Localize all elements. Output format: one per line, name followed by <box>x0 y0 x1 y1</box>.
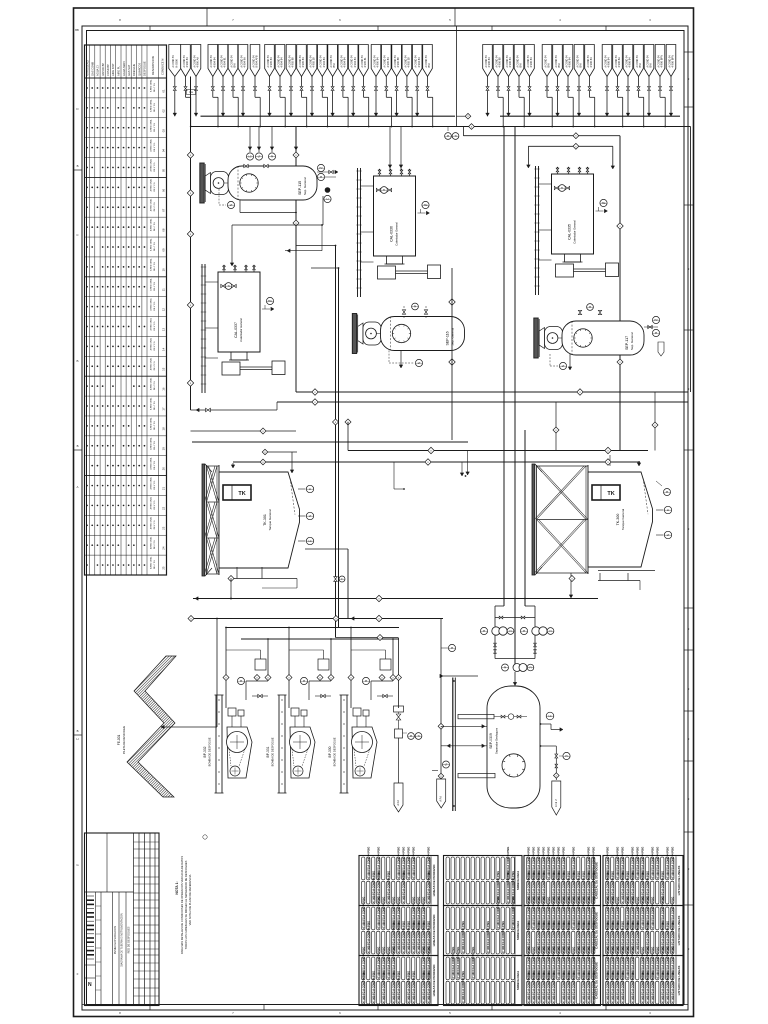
svg-text:DE 4" FG: DE 4" FG <box>154 401 156 410</box>
svg-text:LINEAS DE PROCESO: LINEAS DE PROCESO <box>432 864 436 897</box>
svg-text:A COND 84: A COND 84 <box>636 55 639 68</box>
svg-text:A RED GRAL: A RED GRAL <box>149 317 152 330</box>
svg-text:4" 900 FG A COND 84 PSIG: 4" 900 FG A COND 84 PSIG <box>532 971 535 1003</box>
svg-text:A COND 84: A COND 84 <box>646 55 649 68</box>
svg-text:A COND 84: A COND 84 <box>309 55 312 68</box>
svg-text:GAS COMB: GAS COMB <box>90 62 94 76</box>
svg-text:DE 4" FG: DE 4" FG <box>154 142 156 151</box>
svg-text:LG: LG <box>308 540 311 543</box>
svg-text:4" 900 FG A COND 84 PSIG: 4" 900 FG A COND 84 PSIG <box>397 921 400 953</box>
svg-text:A COND 84: A COND 84 <box>544 55 547 68</box>
svg-text:4" 900 FG A COND 84 PSIG: 4" 900 FG A COND 84 PSIG <box>651 897 654 929</box>
svg-text:DESCRIPCION: DESCRIPCION <box>151 56 155 75</box>
svg-text:Cw: Cw <box>189 90 193 94</box>
svg-text:23: 23 <box>162 526 166 530</box>
svg-text:A RED GRAL: A RED GRAL <box>149 118 152 131</box>
svg-text:LG: LG <box>248 155 251 158</box>
svg-text:24: 24 <box>162 546 166 550</box>
svg-text:17: 17 <box>162 407 166 411</box>
svg-text:A COND 84: A COND 84 <box>587 55 590 68</box>
svg-text:BB: BB <box>75 28 79 32</box>
svg-text:02: 02 <box>162 109 166 113</box>
svg-text:4" 900 FG A COND 84 PSIG: 4" 900 FG A COND 84 PSIG <box>462 971 465 1003</box>
svg-text:COND BP: COND BP <box>106 64 110 76</box>
svg-text:4" 900 FG A COND 84 PSIG: 4" 900 FG A COND 84 PSIG <box>666 971 669 1003</box>
svg-text:LINEAS DE PROCESO: LINEAS DE PROCESO <box>432 914 436 947</box>
svg-text:4" 900 FG A COND 84 PSIG: 4" 900 FG A COND 84 PSIG <box>427 971 430 1003</box>
svg-text:4" 900 FG A COND 84 PSIG: 4" 900 FG A COND 84 PSIG <box>656 847 659 879</box>
svg-text:PI: PI <box>504 666 507 669</box>
svg-text:4" 900 FG A COND 84 PSIG: 4" 900 FG A COND 84 PSIG <box>651 847 654 879</box>
svg-text:A COND 84: A COND 84 <box>415 55 418 68</box>
svg-text:A: A <box>76 485 78 489</box>
svg-text:4" 900 FG A COND 84 PSIG: 4" 900 FG A COND 84 PSIG <box>666 847 669 879</box>
svg-text:BP-331: BP-331 <box>266 746 270 757</box>
svg-text:A COND 84: A COND 84 <box>351 55 354 68</box>
svg-text:Calentador General: Calentador General <box>395 222 399 246</box>
svg-text:TI: TI <box>227 285 229 288</box>
svg-text:TK-301: TK-301 <box>263 514 267 526</box>
svg-text:A RED GRAL: A RED GRAL <box>149 377 152 390</box>
svg-text:FI: FI <box>549 630 551 633</box>
svg-text:LI: LI <box>327 198 329 201</box>
svg-text:4" 900 FG A COND 84 PSIG: 4" 900 FG A COND 84 PSIG <box>552 971 555 1003</box>
svg-text:N: N <box>88 982 92 988</box>
svg-text:DE 4" FG: DE 4" FG <box>154 361 156 370</box>
svg-text:PI: PI <box>410 735 413 738</box>
svg-text:AGUA SERV: AGUA SERV <box>122 61 126 76</box>
svg-text:DE 4" FG: DE 4" FG <box>154 83 156 92</box>
svg-text:NOTA 1:: NOTA 1: <box>175 881 179 894</box>
svg-text:20: 20 <box>162 467 166 471</box>
svg-text:PV: PV <box>319 167 323 170</box>
svg-text:13: 13 <box>162 328 166 332</box>
svg-text:4" 900 FG A COND 84 PSIG: 4" 900 FG A COND 84 PSIG <box>547 971 550 1003</box>
svg-text:A COND 84: A COND 84 <box>555 55 558 68</box>
svg-text:4" 900 FG A COND 84 PSIG: 4" 900 FG A COND 84 PSIG <box>641 897 644 929</box>
svg-text:A RED GRAL: A RED GRAL <box>149 198 152 211</box>
svg-text:DE 4" FG: DE 4" FG <box>154 262 156 271</box>
svg-text:4" 900 FG A COND 84 PSIG: 4" 900 FG A COND 84 PSIG <box>472 947 475 979</box>
svg-text:A COND 84: A COND 84 <box>668 55 671 68</box>
svg-text:11: 11 <box>162 288 166 291</box>
svg-text:03: 03 <box>162 129 166 133</box>
svg-text:BP-332: BP-332 <box>203 746 207 757</box>
svg-text:4" 900 FG A COND 84 PSIG: 4" 900 FG A COND 84 PSIG <box>417 921 420 953</box>
svg-text:A RED GRAL: A RED GRAL <box>149 138 152 151</box>
svg-text:B: B <box>76 359 78 363</box>
svg-text:21: 21 <box>162 487 166 491</box>
svg-text:4" 900 FG A COND 84 PSIG: 4" 900 FG A COND 84 PSIG <box>537 971 540 1003</box>
svg-text:A RED GRAL: A RED GRAL <box>149 357 152 370</box>
svg-text:4" 900 FG A COND 84 PSIG: 4" 900 FG A COND 84 PSIG <box>631 971 634 1003</box>
svg-text:4" 900 FG A COND 84 PSIG: 4" 900 FG A COND 84 PSIG <box>402 921 405 953</box>
svg-text:4" 900 FG A COND 84 PSIG: 4" 900 FG A COND 84 PSIG <box>412 921 415 953</box>
svg-text:A RED GRAL: A RED GRAL <box>149 516 152 529</box>
svg-text:PI: PI <box>451 647 454 650</box>
svg-text:18: 18 <box>162 427 166 431</box>
svg-text:A COND 84: A COND 84 <box>320 55 323 68</box>
svg-text:TIC: TIC <box>424 204 428 207</box>
svg-text:4" 900 FG A COND 84 PSIG: 4" 900 FG A COND 84 PSIG <box>661 971 664 1003</box>
svg-text:4" 900 FG A COND 84 PSIG: 4" 900 FG A COND 84 PSIG <box>502 921 505 953</box>
svg-text:4" 900 FG A COND 84 PSIG: 4" 900 FG A COND 84 PSIG <box>547 847 550 879</box>
svg-text:DE 4" FG: DE 4" FG <box>154 103 156 112</box>
svg-text:A RED GRAL: A RED GRAL <box>149 436 152 449</box>
svg-text:H: H <box>76 737 78 741</box>
svg-text:4" 900 FG A COND 84 PSIG: 4" 900 FG A COND 84 PSIG <box>387 871 390 903</box>
svg-text:4" 900 FG A COND 84 PSIG: 4" 900 FG A COND 84 PSIG <box>382 971 385 1003</box>
svg-text:A COND 84: A COND 84 <box>485 55 488 68</box>
svg-text:A COND 84: A COND 84 <box>404 55 407 68</box>
svg-text:DE 4" FG: DE 4" FG <box>154 162 156 171</box>
svg-text:4" 900 FG A COND 84 PSIG: 4" 900 FG A COND 84 PSIG <box>641 971 644 1003</box>
svg-text:Calentador General: Calentador General <box>239 318 243 342</box>
svg-text:A COND 84: A COND 84 <box>220 55 223 68</box>
svg-text:PI: PI <box>589 306 592 309</box>
svg-text:A RED GRAL: A RED GRAL <box>149 158 152 171</box>
svg-text:TI: TI <box>383 189 385 192</box>
svg-text:4" 900 FG A COND 84 PSIG: 4" 900 FG A COND 84 PSIG <box>412 847 415 879</box>
svg-text:A COND 84: A COND 84 <box>495 55 498 68</box>
svg-text:Tanque General: Tanque General <box>621 508 625 530</box>
svg-text:PI: PI <box>565 755 568 758</box>
svg-text:4" 900 FG A COND 84 PSIG: 4" 900 FG A COND 84 PSIG <box>611 971 614 1003</box>
svg-text:4" 900 FG A COND 84 PSIG: 4" 900 FG A COND 84 PSIG <box>377 947 380 979</box>
svg-text:4" 900 FG A COND 84 PSIG: 4" 900 FG A COND 84 PSIG <box>572 897 575 929</box>
svg-text:DE 4" FG: DE 4" FG <box>154 540 156 549</box>
svg-text:A COND 84: A COND 84 <box>240 55 243 68</box>
svg-text:4" 900 FG A COND 84 PSIG: 4" 900 FG A COND 84 PSIG <box>532 897 535 929</box>
svg-text:08: 08 <box>162 228 166 232</box>
svg-text:A Fd Lf: A Fd Lf <box>555 799 558 807</box>
svg-text:25: 25 <box>162 566 166 570</box>
svg-text:Sep. General: Sep. General <box>303 177 307 195</box>
svg-text:DE 4" FG: DE 4" FG <box>154 560 156 569</box>
svg-text:DE 4" FG: DE 4" FG <box>154 182 156 191</box>
svg-text:A RED GRAL: A RED GRAL <box>149 218 152 231</box>
svg-text:A COND 84: A COND 84 <box>330 55 333 68</box>
svg-text:LISTADO DE LINEAS: LISTADO DE LINEAS <box>677 866 681 896</box>
svg-text:4" 900 FG A COND 84 PSIG: 4" 900 FG A COND 84 PSIG <box>397 971 400 1003</box>
svg-text:A COND 84: A COND 84 <box>252 55 255 68</box>
svg-text:TI: TI <box>454 135 456 138</box>
svg-text:DE 4" FG: DE 4" FG <box>154 122 156 131</box>
svg-text:A Fd: A Fd <box>439 796 443 802</box>
svg-text:4" 900 FG A COND 84 PSIG: 4" 900 FG A COND 84 PSIG <box>407 847 410 879</box>
svg-text:DE 4" FG: DE 4" FG <box>154 480 156 489</box>
svg-text:BOMBA DE DESFOGUE: BOMBA DE DESFOGUE <box>208 737 212 766</box>
svg-text:4" 900 FG A COND 84 PSIG: 4" 900 FG A COND 84 PSIG <box>582 971 585 1003</box>
svg-text:B: B <box>77 729 79 733</box>
svg-text:CABEZAL DE DESFOGUE: CABEZAL DE DESFOGUE <box>595 862 599 899</box>
svg-text:A COND 84: A COND 84 <box>277 55 280 68</box>
svg-text:4" 900 FG A COND 84 PSIG: 4" 900 FG A COND 84 PSIG <box>562 971 565 1003</box>
svg-text:PI: PI <box>303 680 306 683</box>
svg-text:4" 900 FG A COND 84 PSIG: 4" 900 FG A COND 84 PSIG <box>402 871 405 903</box>
svg-text:4" 900 FG A COND 84 PSIG: 4" 900 FG A COND 84 PSIG <box>512 897 515 929</box>
svg-text:DE 4" FG: DE 4" FG <box>154 441 156 450</box>
svg-text:A RED GRAL: A RED GRAL <box>149 258 152 271</box>
svg-text:10: 10 <box>162 268 166 272</box>
svg-text:A COND 84: A COND 84 <box>604 55 607 68</box>
svg-text:05: 05 <box>162 168 166 172</box>
svg-text:A RED GRAL: A RED GRAL <box>149 99 152 112</box>
svg-text:TODOS LOS CABEZALES SE DIRIGEN: TODOS LOS CABEZALES SE DIRIGEN AL SEPARA… <box>184 860 188 949</box>
svg-text:A RED GRAL: A RED GRAL <box>149 277 152 290</box>
svg-text:Tanque General: Tanque General <box>268 509 272 531</box>
svg-text:LISTADO DE LINEAS: LISTADO DE LINEAS <box>677 966 681 996</box>
svg-text:19: 19 <box>162 447 166 451</box>
svg-text:4" 900 FG A COND 84 PSIG: 4" 900 FG A COND 84 PSIG <box>567 971 570 1003</box>
svg-text:AIRE PL: AIRE PL <box>117 65 121 76</box>
svg-text:DESFOGUE: DESFOGUE <box>143 61 147 76</box>
svg-text:4" 900 FG A COND 84 PSIG: 4" 900 FG A COND 84 PSIG <box>372 971 375 1003</box>
svg-text:A COND 84: A COND 84 <box>267 55 270 68</box>
svg-text:4" 900 FG A COND 84 PSIG: 4" 900 FG A COND 84 PSIG <box>577 947 580 979</box>
svg-text:CAL-0335: CAL-0335 <box>568 224 572 240</box>
svg-text:SEP-116: SEP-116 <box>446 331 450 345</box>
svg-text:A COND 84: A COND 84 <box>576 55 579 68</box>
svg-text:DE 4" FG: DE 4" FG <box>154 460 156 469</box>
svg-text:SEP-0309: SEP-0309 <box>489 733 493 749</box>
svg-text:GAS NAT: GAS NAT <box>127 64 131 76</box>
svg-text:4" 900 FG A COND 84 PSIG: 4" 900 FG A COND 84 PSIG <box>621 971 624 1003</box>
svg-text:AIRE INST: AIRE INST <box>111 63 115 76</box>
svg-text:TK: TK <box>238 491 245 497</box>
svg-text:PI: PI <box>271 155 274 158</box>
svg-text:A COND 84: A COND 84 <box>210 55 213 68</box>
svg-text:4" 900 FG A COND 84 PSIG: 4" 900 FG A COND 84 PSIG <box>487 921 490 953</box>
svg-text:4" 900 FG A COND 84 PSIG: 4" 900 FG A COND 84 PSIG <box>412 971 415 1003</box>
svg-text:4" 900 FG A COND 84 PSIG: 4" 900 FG A COND 84 PSIG <box>387 947 390 979</box>
svg-text:SIMBOLOGIA: SIMBOLOGIA <box>516 970 520 990</box>
svg-text:A COND 84: A COND 84 <box>565 55 568 68</box>
svg-text:CONDUCE N: CONDUCE N <box>161 59 165 75</box>
svg-text:A RED GRAL: A RED GRAL <box>149 337 152 350</box>
svg-text:4" 900 FG A COND 84 PSIG: 4" 900 FG A COND 84 PSIG <box>362 897 365 929</box>
svg-text:Sep. General: Sep. General <box>630 332 634 350</box>
svg-text:A COND 84: A COND 84 <box>340 55 343 68</box>
svg-text:QUIMICOS: QUIMICOS <box>137 63 141 76</box>
svg-text:LI: LI <box>667 509 669 512</box>
svg-text:Sep. General: Sep. General <box>451 327 455 345</box>
svg-text:22: 22 <box>162 506 166 510</box>
svg-text:DE 4" FG: DE 4" FG <box>154 421 156 430</box>
svg-text:SIMBOLOGIA: SIMBOLOGIA <box>516 870 520 890</box>
svg-text:A COND 84: A COND 84 <box>172 55 175 68</box>
svg-text:DE 4" FG: DE 4" FG <box>154 282 156 291</box>
svg-text:SIMBOLOGIA: SIMBOLOGIA <box>516 920 520 940</box>
svg-text:A RED GRAL: A RED GRAL <box>149 417 152 430</box>
svg-text:A RED GRAL: A RED GRAL <box>149 238 152 251</box>
svg-text:A COND 84: A COND 84 <box>361 55 364 68</box>
svg-text:A COND 84: A COND 84 <box>288 55 291 68</box>
svg-text:4" 900 FG A COND 84 PSIG: 4" 900 FG A COND 84 PSIG <box>362 971 365 1003</box>
svg-text:A RED GRAL: A RED GRAL <box>149 496 152 509</box>
svg-text:DIAGRAMA DE TUBERIA E INSTRUME: DIAGRAMA DE TUBERIA E INSTRUMENTACION <box>121 913 124 967</box>
svg-text:A RED GRAL: A RED GRAL <box>149 456 152 469</box>
svg-text:A COND 84: A COND 84 <box>506 55 509 68</box>
svg-text:4" 900 FG A COND 84 PSIG: 4" 900 FG A COND 84 PSIG <box>616 971 619 1003</box>
svg-text:A COND 84: A COND 84 <box>373 55 376 68</box>
svg-text:CABEZAL DE DESFOGUE: CABEZAL DE DESFOGUE <box>595 962 599 999</box>
svg-text:PEMEX EXPLORACION: PEMEX EXPLORACION <box>113 926 117 955</box>
svg-text:A COND 84: A COND 84 <box>425 55 428 68</box>
svg-text:4" 900 FG A COND 84 PSIG: 4" 900 FG A COND 84 PSIG <box>397 847 400 879</box>
svg-text:TI: TI <box>417 735 419 738</box>
svg-text:4" 900 FG A COND 84 PSIG: 4" 900 FG A COND 84 PSIG <box>651 971 654 1003</box>
svg-text:4" 900 FG A COND 84 PSIG: 4" 900 FG A COND 84 PSIG <box>497 897 500 929</box>
svg-text:01: 01 <box>162 89 166 93</box>
svg-text:A RED GRAL: A RED GRAL <box>149 79 152 92</box>
svg-text:4" 900 FG A COND 84 PSIG: 4" 900 FG A COND 84 PSIG <box>367 921 370 953</box>
svg-text:16: 16 <box>162 387 166 391</box>
svg-text:4" 900 FG A COND 84 PSIG: 4" 900 FG A COND 84 PSIG <box>587 971 590 1003</box>
svg-text:A COND 84: A COND 84 <box>657 55 660 68</box>
svg-text:4" 900 FG A COND 84 PSIG: 4" 900 FG A COND 84 PSIG <box>626 947 629 979</box>
svg-text:TIC: TIC <box>602 202 606 205</box>
svg-text:A COND 84: A COND 84 <box>394 55 397 68</box>
svg-text:4" 900 FG A COND 84 PSIG: 4" 900 FG A COND 84 PSIG <box>367 847 370 879</box>
svg-text:TIC: TIC <box>268 300 272 303</box>
svg-text:07: 07 <box>162 208 166 212</box>
svg-text:4" 900 FG A COND 84 PSIG: 4" 900 FG A COND 84 PSIG <box>382 897 385 929</box>
svg-text:4" 900 FG A COND 84 PSIG: 4" 900 FG A COND 84 PSIG <box>621 871 624 903</box>
svg-text:PI: PI <box>365 680 368 683</box>
svg-text:4" 900 FG A COND 84 PSIG: 4" 900 FG A COND 84 PSIG <box>542 971 545 1003</box>
svg-text:14: 14 <box>162 347 166 351</box>
svg-text:4" 900 FG A COND 84 PSIG: 4" 900 FG A COND 84 PSIG <box>527 971 530 1003</box>
svg-text:PI: PI <box>414 305 417 308</box>
svg-text:A COND 84: A COND 84 <box>527 55 530 68</box>
svg-text:DE 4" FG: DE 4" FG <box>154 341 156 350</box>
svg-text:DE 4" FG: DE 4" FG <box>154 520 156 529</box>
svg-text:4" 900 FG A COND 84 PSIG: 4" 900 FG A COND 84 PSIG <box>606 971 609 1003</box>
svg-text:DE 4" FG: DE 4" FG <box>154 222 156 231</box>
svg-text:TK-300: TK-300 <box>616 514 620 526</box>
svg-text:BP-330: BP-330 <box>328 746 332 757</box>
svg-text:4" 900 FG A COND 84 PSIG: 4" 900 FG A COND 84 PSIG <box>392 971 395 1003</box>
svg-text:LISTADO DE LINEAS: LISTADO DE LINEAS <box>677 916 681 946</box>
svg-text:FI: FI <box>529 666 531 669</box>
svg-text:A RED GRAL: A RED GRAL <box>149 397 152 410</box>
svg-text:BOMBA DE DESFOGUE: BOMBA DE DESFOGUE <box>271 737 275 766</box>
svg-text:4" 900 FG A COND 84 PSIG: 4" 900 FG A COND 84 PSIG <box>671 971 674 1003</box>
svg-text:CAL-0337: CAL-0337 <box>234 322 238 338</box>
svg-text:DE 4" FG: DE 4" FG <box>154 202 156 211</box>
svg-text:4" 900 FG A COND 84 PSIG: 4" 900 FG A COND 84 PSIG <box>646 971 649 1003</box>
svg-text:15: 15 <box>162 367 166 371</box>
svg-text:4" 900 FG A COND 84 PSIG: 4" 900 FG A COND 84 PSIG <box>407 971 410 1003</box>
svg-text:PI: PI <box>483 630 486 633</box>
svg-text:4" 900 FG A COND 84 PSIG: 4" 900 FG A COND 84 PSIG <box>422 971 425 1003</box>
svg-text:LI: LI <box>309 488 311 491</box>
svg-text:A COND 84: A COND 84 <box>193 55 196 68</box>
svg-text:NITROGENO: NITROGENO <box>85 60 89 76</box>
svg-text:LG: LG <box>548 715 551 718</box>
svg-text:4" 900 FG A COND 84 PSIG: 4" 900 FG A COND 84 PSIG <box>377 897 380 929</box>
svg-text:SEP-115: SEP-115 <box>298 181 302 195</box>
svg-text:DE 4" FG: DE 4" FG <box>154 500 156 509</box>
svg-text:4" 900 FG A COND 84 PSIG: 4" 900 FG A COND 84 PSIG <box>452 947 455 979</box>
svg-text:A RED GRAL: A RED GRAL <box>149 297 152 310</box>
svg-text:04: 04 <box>162 149 166 153</box>
svg-text:BOMBA DE DESFOGUE: BOMBA DE DESFOGUE <box>333 737 337 766</box>
svg-text:VER NOTA 2 DE PLANO DE REFEREN: VER NOTA 2 DE PLANO DE REFERENCIA <box>188 874 192 925</box>
svg-text:A RED GRAL: A RED GRAL <box>149 536 152 549</box>
svg-text:09: 09 <box>162 248 166 252</box>
svg-text:TI: TI <box>561 187 563 190</box>
svg-text:B: B <box>77 164 79 168</box>
svg-text:SEP-117: SEP-117 <box>625 336 629 350</box>
svg-text:RED DE DESFOGUES: RED DE DESFOGUES <box>127 926 131 953</box>
svg-text:4" 900 FG A COND 84 PSIG: 4" 900 FG A COND 84 PSIG <box>462 921 465 953</box>
svg-text:PV: PV <box>654 319 658 322</box>
svg-text:A COND 84: A COND 84 <box>516 55 519 68</box>
svg-text:CABEZAL DE DESFOGUE: CABEZAL DE DESFOGUE <box>595 912 599 949</box>
svg-text:DE 4" FG: DE 4" FG <box>154 321 156 330</box>
svg-text:VAPOR BP: VAPOR BP <box>101 63 105 76</box>
svg-text:A RED GRAL: A RED GRAL <box>149 556 152 569</box>
svg-text:4" 900 FG A COND 84 PSIG: 4" 900 FG A COND 84 PSIG <box>372 871 375 903</box>
svg-text:A COND 84: A COND 84 <box>384 55 387 68</box>
svg-text:06: 06 <box>162 188 166 192</box>
svg-text:PARA MAS DETALLES DE CONDICION: PARA MAS DETALLES DE CONDICIONES DE OPER… <box>180 856 184 954</box>
svg-text:DE 4" FG: DE 4" FG <box>154 381 156 390</box>
svg-text:PI: PI <box>523 630 526 633</box>
svg-text:4" 900 FG A COND 84 PSIG: 4" 900 FG A COND 84 PSIG <box>427 871 430 903</box>
svg-text:PI: PI <box>447 135 450 138</box>
svg-text:TK: TK <box>607 491 614 497</box>
svg-text:A COND 84: A COND 84 <box>625 55 628 68</box>
svg-text:LINEAS DE PROCESO: LINEAS DE PROCESO <box>432 964 436 997</box>
svg-text:A COND 84: A COND 84 <box>183 55 186 68</box>
svg-text:PI: PI <box>655 332 658 335</box>
svg-text:A COND 84: A COND 84 <box>230 55 233 68</box>
svg-text:B: B <box>77 444 79 448</box>
svg-text:4" 900 FG A COND 84 PSIG: 4" 900 FG A COND 84 PSIG <box>407 921 410 953</box>
svg-text:Calentador General: Calentador General <box>573 220 577 244</box>
svg-text:4" 900 FG A COND 84 PSIG: 4" 900 FG A COND 84 PSIG <box>572 971 575 1003</box>
svg-text:CAL-0336: CAL-0336 <box>390 226 394 242</box>
svg-text:AGUA CI: AGUA CI <box>96 65 100 76</box>
svg-text:DE 4" FG: DE 4" FG <box>154 301 156 310</box>
svg-text:4" 900 FG A COND 84 PSIG: 4" 900 FG A COND 84 PSIG <box>671 847 674 879</box>
svg-text:PI: PI <box>320 176 323 179</box>
svg-text:A Fd: A Fd <box>396 800 400 806</box>
svg-text:4" 900 FG A COND 84 PSIG: 4" 900 FG A COND 84 PSIG <box>656 947 659 979</box>
svg-text:A RED GRAL: A RED GRAL <box>149 178 152 191</box>
svg-text:A RED GRAL: A RED GRAL <box>149 476 152 489</box>
svg-text:Separador Desfogues: Separador Desfogues <box>495 727 499 754</box>
svg-text:12: 12 <box>162 308 166 312</box>
svg-text:F: F <box>77 972 79 976</box>
svg-text:4" 900 FG A COND 84 PSIG: 4" 900 FG A COND 84 PSIG <box>636 847 639 879</box>
svg-text:DE 4" FG: DE 4" FG <box>154 242 156 251</box>
svg-text:4" 900 FG A COND 84 PSIG: 4" 900 FG A COND 84 PSIG <box>616 847 619 879</box>
svg-text:4" 900 FG A COND 84 PSIG: 4" 900 FG A COND 84 PSIG <box>557 947 560 979</box>
svg-text:4" 900 FG A COND 84 PSIG: 4" 900 FG A COND 84 PSIG <box>507 871 510 903</box>
svg-text:4" 900 FG A COND 84 PSIG: 4" 900 FG A COND 84 PSIG <box>636 921 639 953</box>
svg-text:A COND 84: A COND 84 <box>299 55 302 68</box>
svg-text:DRENAJE: DRENAJE <box>132 64 136 76</box>
svg-text:FE-001: FE-001 <box>117 735 121 746</box>
svg-text:FI: FI <box>509 630 511 633</box>
svg-text:PI: PI <box>240 680 243 683</box>
svg-text:PI: PI <box>666 491 669 494</box>
svg-text:4" 900 FG A COND 84 PSIG: 4" 900 FG A COND 84 PSIG <box>457 947 460 979</box>
